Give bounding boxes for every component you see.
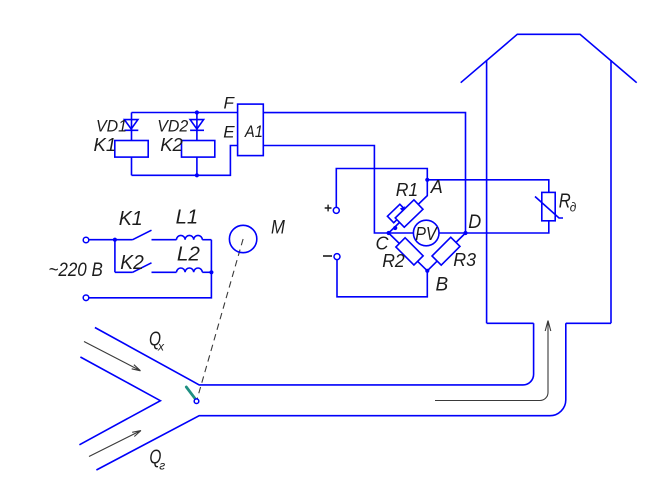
op-amp block A1 (238, 104, 264, 156)
label Qx (149, 329, 165, 354)
label node B (436, 274, 449, 295)
flow arrow in pipe (435, 321, 551, 401)
label K1 switch (119, 208, 143, 230)
label K1 relay (94, 134, 117, 155)
svg-text:K2: K2 (120, 252, 144, 274)
duct right wall (610, 60, 612, 323)
label node A (430, 177, 443, 197)
svg-text:~220 В: ~220 В (49, 259, 103, 281)
svg-text:R3: R3 (453, 250, 476, 270)
resistor R1 (395, 200, 423, 227)
label E (223, 122, 235, 141)
label K2 switch (120, 252, 144, 274)
junction node B (425, 269, 429, 273)
wire bridge diagonal C-D (389, 232, 466, 234)
relay coil K1 (115, 141, 148, 158)
label node D (468, 212, 481, 233)
svg-text:K2: K2 (160, 134, 183, 155)
wire 220V top feed (89, 239, 115, 241)
svg-text:x: x (157, 340, 165, 354)
flow arrow Qx (84, 342, 141, 371)
duct bottom left (487, 322, 534, 324)
inductor L1 (177, 235, 203, 239)
wire bottom rail to A1 (node E) (132, 146, 238, 176)
svg-text:A: A (430, 177, 443, 197)
duct left wall (486, 60, 488, 323)
label L1 (176, 207, 199, 229)
wire K2 branch drop (114, 240, 116, 273)
wire top rail VD1-VD2-A1 (node F) (132, 112, 238, 114)
valve flap (186, 387, 196, 400)
wire node A to Rd (427, 180, 549, 193)
wire minus feed to node B (337, 260, 427, 297)
diode VD2 (190, 120, 204, 131)
terminal 220V bottom (83, 295, 89, 301)
label Qg (149, 447, 165, 473)
svg-text:д: д (570, 200, 577, 215)
label R3 (453, 250, 476, 270)
relay coil K2 (182, 141, 215, 158)
wire A1 F output to node D (263, 113, 465, 233)
wire K2 to bottom rail (196, 157, 198, 175)
diode VD1 (124, 120, 138, 131)
label M (271, 217, 286, 239)
pipe upper branch top wall and horizontal top wall (95, 323, 534, 385)
label PV (415, 224, 438, 244)
inductor L2 (177, 268, 203, 272)
svg-text:K1: K1 (119, 208, 143, 230)
terminal plus (333, 207, 339, 213)
switch contact K2 (115, 263, 177, 273)
resistor R3 (432, 237, 460, 265)
svg-text:B: B (436, 274, 449, 295)
junction node A (425, 178, 429, 182)
voltmeter PV (413, 220, 439, 246)
svg-text:M: M (271, 217, 286, 239)
label A1 (244, 122, 263, 141)
resistor R2 (396, 238, 423, 265)
junction node C (387, 231, 391, 235)
wire right rail and bottom return (89, 240, 212, 298)
svg-text:K1: K1 (94, 134, 117, 155)
minus sign (323, 255, 332, 257)
motor M (229, 225, 256, 252)
wire L1 to right rail (202, 239, 211, 241)
label R1 (396, 180, 419, 200)
wire plus feed to node A (336, 169, 427, 208)
wire VD1 branch vertical (131, 113, 133, 141)
pipe lower branch bottom wall and horizontal bottom wall (96, 323, 565, 470)
wire VD2 branch vertical (196, 113, 198, 141)
flow arrow Qg (89, 431, 141, 457)
thermistor Rd (535, 192, 563, 220)
svg-text:A1: A1 (244, 122, 263, 141)
junction node D (463, 231, 467, 235)
label R2 (382, 251, 405, 271)
junction VD2 bottom (195, 173, 199, 177)
duct bottom right (566, 322, 611, 324)
wire K1 to bottom rail (131, 157, 133, 175)
dashed link M to valve (197, 239, 244, 401)
svg-text:R2: R2 (382, 251, 405, 271)
trimmer rectangle near R1 (387, 204, 406, 223)
junction L2 rail (209, 270, 213, 274)
wire L2 to right rail (202, 271, 211, 273)
wire Rd to node D (466, 221, 549, 233)
label VD2 (157, 116, 189, 135)
svg-text:R1: R1 (396, 180, 419, 200)
svg-text:D: D (468, 212, 481, 233)
wire bridge arm A-C (389, 180, 428, 233)
junction R1 tap (393, 226, 397, 230)
wiper arrow of R1 (400, 206, 405, 211)
label node C (376, 234, 390, 254)
label 220V (49, 259, 103, 281)
terminal minus (334, 254, 340, 260)
label L2 (177, 244, 200, 266)
svg-text:VD1: VD1 (96, 116, 127, 135)
wire A1 E output to node C (263, 146, 388, 234)
label VD1 (96, 116, 127, 135)
svg-text:г: г (159, 459, 165, 473)
terminal 220V top (83, 237, 89, 243)
duct roof (461, 34, 637, 82)
junction VD2 top (195, 110, 199, 114)
pipe Y inner walls (79, 357, 160, 445)
svg-text:L1: L1 (176, 207, 199, 229)
label Rd (559, 190, 577, 214)
svg-text:L2: L2 (177, 244, 200, 266)
wire bridge arm C-B (389, 233, 428, 271)
wire bridge arm B-D (427, 233, 465, 271)
svg-text:PV: PV (415, 224, 438, 244)
label F (224, 94, 236, 113)
svg-text:VD2: VD2 (157, 116, 189, 135)
label K2 relay (160, 134, 183, 155)
valve pivot (194, 399, 199, 404)
svg-text:E: E (223, 122, 235, 141)
plus sign (325, 205, 332, 212)
switch contact K1 (115, 230, 177, 240)
svg-text:F: F (224, 94, 236, 113)
junction 220V branch (113, 238, 117, 242)
